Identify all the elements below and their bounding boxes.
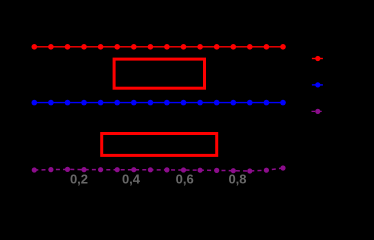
legend purple	[312, 110, 325, 112]
blue series line	[34, 102, 283, 104]
legend red	[312, 58, 323, 60]
purple series markers	[32, 167, 37, 172]
svg-text:0,4: 0,4	[122, 172, 141, 187]
legend blue	[312, 84, 323, 86]
svg-text:0,8: 0,8	[228, 172, 246, 187]
red series markers	[32, 44, 38, 50]
red series line	[34, 46, 283, 48]
svg-text:0,6: 0,6	[176, 172, 194, 187]
svg-text:0,2: 0,2	[70, 172, 88, 187]
purple series line	[34, 168, 283, 171]
blue series markers	[32, 100, 38, 106]
red rectangle 1	[114, 59, 204, 88]
red rectangle 2	[102, 134, 217, 156]
